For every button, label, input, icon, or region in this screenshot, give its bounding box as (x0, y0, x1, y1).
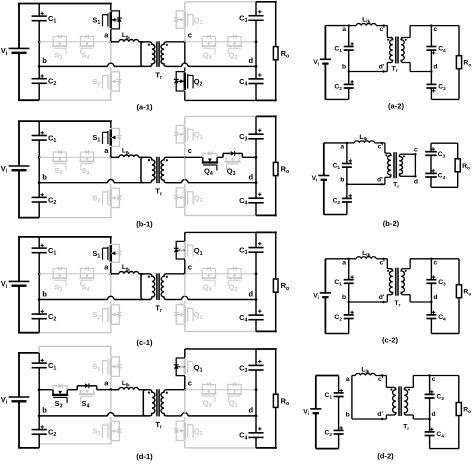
svg-text:d': d' (377, 411, 383, 418)
svg-text:b: b (42, 406, 47, 415)
svg-text:c': c' (379, 26, 385, 33)
svg-text:c: c (188, 31, 192, 40)
svg-text:c: c (434, 26, 438, 33)
svg-text:(a-2): (a-2) (388, 101, 405, 110)
svg-text:b: b (42, 173, 47, 182)
svg-text:(c-1): (c-1) (136, 338, 153, 347)
svg-text:b: b (42, 56, 47, 65)
svg-text:b: b (346, 411, 350, 418)
svg-text:a: a (340, 144, 344, 151)
svg-text:d: d (414, 179, 418, 186)
svg-text:b: b (342, 294, 346, 301)
svg-text:(b-1): (b-1) (136, 220, 153, 229)
svg-text:b: b (42, 289, 47, 298)
svg-text:(d-2): (d-2) (377, 452, 394, 461)
svg-text:a: a (342, 259, 346, 266)
svg-text:c: c (188, 146, 192, 155)
svg-text:c: c (188, 263, 192, 272)
svg-text:d': d' (379, 64, 385, 71)
svg-text:d': d' (377, 177, 383, 184)
svg-text:d: d (249, 289, 254, 298)
svg-text:d: d (433, 294, 437, 301)
svg-text:b: b (340, 177, 344, 184)
svg-text:(a-1): (a-1) (136, 102, 153, 111)
svg-text:d: d (433, 64, 437, 71)
svg-text:b: b (342, 64, 346, 71)
svg-text:(b-2): (b-2) (383, 219, 400, 228)
svg-text:d': d' (379, 294, 385, 301)
svg-text:d: d (432, 411, 436, 418)
svg-text:c: c (188, 379, 192, 388)
svg-text:c: c (432, 376, 436, 383)
svg-text:c': c' (379, 259, 385, 266)
svg-text:c': c' (378, 144, 384, 151)
svg-text:(c-2): (c-2) (382, 335, 399, 344)
svg-text:d: d (249, 56, 254, 65)
svg-text:c: c (414, 146, 418, 153)
svg-text:a: a (342, 26, 346, 33)
svg-text:c: c (434, 259, 438, 266)
svg-text:d: d (249, 173, 254, 182)
svg-text:c': c' (378, 376, 384, 383)
svg-text:a: a (346, 376, 350, 383)
svg-text:d: d (249, 406, 254, 415)
svg-text:(d-1): (d-1) (136, 452, 153, 461)
